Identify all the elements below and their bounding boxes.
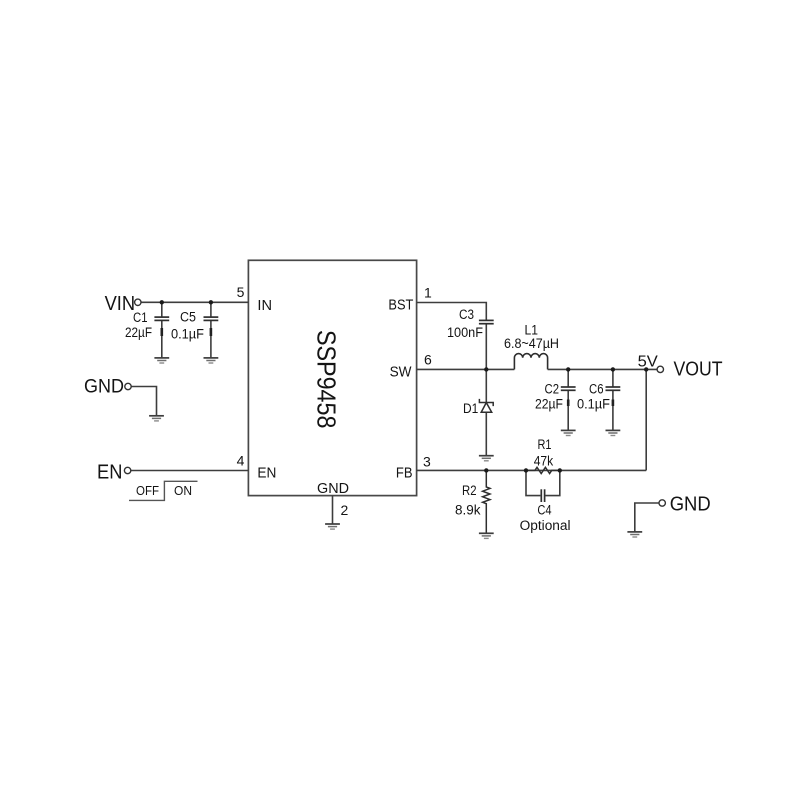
diode D1 zener: [479, 399, 493, 412]
ground GND left: [149, 416, 164, 421]
node FB/R2: [484, 468, 488, 472]
svg-text:100nF: 100nF: [447, 325, 483, 340]
ground GND right: [627, 532, 642, 537]
svg-text:Optional: Optional: [520, 518, 571, 533]
wire GND terminal to ground: [131, 387, 156, 416]
capacitor C5 plates: [204, 317, 219, 320]
svg-text:ON: ON: [174, 483, 192, 498]
wire C2 top lead: [567, 369, 569, 387]
wire SW pin6 to L1: [417, 368, 515, 370]
wire BST pin1 to C3: [417, 303, 487, 321]
node C1/VIN: [160, 300, 164, 304]
terminal GND left: [125, 383, 131, 389]
wire GND right terminal: [635, 503, 659, 532]
svg-text:FB: FB: [396, 465, 413, 482]
svg-text:BST: BST: [388, 297, 413, 314]
svg-text:2: 2: [341, 502, 349, 518]
wire C6 bottom lead: [612, 390, 614, 430]
svg-text:C6: C6: [589, 382, 604, 397]
svg-text:D1: D1: [463, 401, 478, 416]
svg-text:VOUT: VOUT: [674, 359, 723, 381]
svg-text:C5: C5: [180, 310, 196, 325]
node C5/VIN: [209, 300, 213, 304]
svg-text:GND: GND: [670, 493, 711, 515]
inductor L1: [514, 354, 547, 370]
terminal VIN: [135, 299, 141, 305]
svg-text:0.1µF: 0.1µF: [171, 327, 204, 342]
capacitor C6 plates: [606, 387, 621, 390]
ground C1: [154, 358, 169, 363]
svg-text:22µF: 22µF: [125, 325, 152, 340]
svg-text:5V: 5V: [638, 353, 659, 370]
svg-text:6.8~47µH: 6.8~47µH: [504, 336, 559, 351]
ground C6: [606, 430, 621, 435]
wire C5 top lead: [210, 302, 212, 317]
ground pin2: [325, 524, 340, 529]
wire L1 to VOUT terminal: [548, 368, 658, 370]
svg-text:4: 4: [237, 453, 245, 469]
svg-text:VIN: VIN: [105, 293, 136, 315]
node R1 right: [558, 468, 562, 472]
node C2/VOUT: [566, 367, 570, 371]
ground C5: [204, 358, 219, 363]
svg-text:EN: EN: [257, 465, 276, 482]
wire D1 anode to ground: [485, 412, 487, 455]
svg-text:R1: R1: [538, 437, 552, 452]
svg-text:22µF: 22µF: [535, 397, 563, 412]
wire VIN to IN pin5: [141, 301, 248, 303]
svg-text:C4: C4: [537, 503, 552, 518]
svg-text:5: 5: [237, 284, 245, 300]
wire C3 bottom lead: [485, 324, 487, 370]
svg-text:47k: 47k: [534, 454, 554, 469]
chip U1 SSP9458 body: [248, 260, 416, 495]
capacitor C3 plates: [479, 320, 494, 323]
wire C6 top lead: [612, 369, 614, 387]
svg-text:GND: GND: [84, 376, 124, 397]
capacitor C2 plates: [561, 387, 576, 390]
wire C1 top lead: [161, 302, 163, 317]
wire VOUT branch down to FB net: [645, 369, 647, 470]
svg-text:8.9k: 8.9k: [455, 502, 481, 517]
wire SW junction to D1: [485, 369, 487, 402]
junction dots: [160, 300, 649, 473]
svg-text:C3: C3: [459, 307, 474, 322]
terminal VOUT: [657, 366, 663, 372]
svg-text:IN: IN: [257, 297, 272, 314]
wire C2 bottom lead: [567, 390, 569, 430]
svg-text:SW: SW: [390, 364, 413, 381]
wire C5 bottom lead: [210, 320, 212, 358]
node R1 left: [524, 468, 528, 472]
svg-text:3: 3: [423, 454, 431, 470]
svg-text:6: 6: [424, 351, 432, 367]
node VOUT/FB branch: [644, 367, 648, 371]
terminal EN: [124, 467, 130, 473]
wire FB pin3 net: [417, 469, 647, 471]
svg-text:EN: EN: [97, 462, 122, 484]
svg-text:0.1µF: 0.1µF: [577, 397, 610, 412]
svg-text:GND: GND: [317, 480, 349, 497]
svg-text:SSP9458: SSP9458: [312, 330, 342, 429]
capacitor C4 plates: [541, 489, 544, 502]
node SW/C3/D1: [484, 367, 488, 371]
capacitor C4 loop: [526, 470, 540, 495]
resistor R2 8.9k: [483, 471, 490, 534]
open terminals: [124, 299, 665, 506]
svg-text:R2: R2: [462, 483, 477, 498]
svg-text:OFF: OFF: [136, 483, 159, 498]
svg-text:C2: C2: [545, 382, 560, 397]
ground R2: [479, 533, 494, 538]
wire off-on step: [129, 481, 198, 500]
ground D1: [479, 456, 494, 461]
svg-text:1: 1: [424, 284, 432, 300]
cap lead ticks: [162, 328, 613, 406]
wire GND pin2: [332, 496, 334, 524]
ground C2: [561, 430, 576, 435]
node C6/VOUT: [611, 367, 615, 371]
svg-text:C1: C1: [133, 310, 148, 325]
wire C1 bottom lead: [161, 320, 163, 358]
resistor R1 47k: [526, 467, 560, 473]
capacitor C1 plates: [154, 317, 169, 320]
terminal GND right: [659, 500, 665, 506]
wire EN to pin4: [131, 470, 249, 472]
